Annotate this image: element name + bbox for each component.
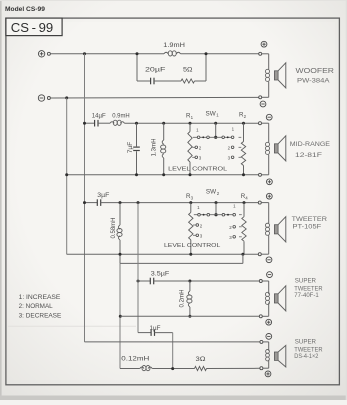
svg-text:3µF: 3µF <box>97 192 109 199</box>
svg-text:SUPER: SUPER <box>295 339 317 346</box>
svg-text:12-81F: 12-81F <box>295 152 322 159</box>
svg-text:0.58mH: 0.58mH <box>110 218 117 239</box>
svg-text:3: DECREASE: 3: DECREASE <box>19 312 62 319</box>
svg-text:TWEETER: TWEETER <box>292 216 328 223</box>
svg-text:1µF: 1µF <box>150 325 161 332</box>
svg-text:WOOFER: WOOFER <box>296 66 335 75</box>
svg-text:SUPER: SUPER <box>295 277 317 284</box>
svg-text:5Ω: 5Ω <box>183 67 193 74</box>
svg-text:0.12mH: 0.12mH <box>121 356 149 363</box>
svg-text:2: NORMAL: 2: NORMAL <box>19 303 54 310</box>
svg-text:20µF: 20µF <box>145 67 165 74</box>
svg-text:SW: SW <box>206 111 216 118</box>
svg-text:3.5µF: 3.5µF <box>151 271 170 278</box>
svg-text:CS - 99: CS - 99 <box>11 20 53 35</box>
svg-text:1.3mH: 1.3mH <box>151 139 158 157</box>
svg-text:14µF: 14µF <box>92 112 106 119</box>
svg-text:1.9mH: 1.9mH <box>163 42 185 49</box>
svg-text:3Ω: 3Ω <box>196 356 206 363</box>
svg-text:77-40F-1: 77-40F-1 <box>294 292 319 299</box>
svg-text:0.2mH: 0.2mH <box>179 290 186 308</box>
svg-text:7µF: 7µF <box>127 142 134 154</box>
svg-text:LEVEL CONTROL: LEVEL CONTROL <box>164 243 221 249</box>
svg-text:PT-105F: PT-105F <box>293 223 322 230</box>
svg-text:0.9mH: 0.9mH <box>112 112 130 119</box>
svg-text:Model CS-99: Model CS-99 <box>5 6 45 13</box>
svg-text:DS-4-1×2: DS-4-1×2 <box>294 353 319 360</box>
svg-text:1: INCREASE: 1: INCREASE <box>19 294 61 301</box>
svg-text:LEVEL CONTROL: LEVEL CONTROL <box>168 166 228 172</box>
svg-text:MID-RANGE: MID-RANGE <box>290 141 331 148</box>
svg-text:SW: SW <box>206 189 216 196</box>
svg-text:PW-384A: PW-384A <box>297 78 330 85</box>
